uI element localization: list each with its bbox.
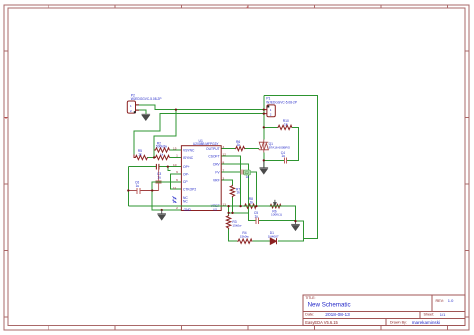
resistor R7: [230, 185, 234, 197]
svg-text:WJEDGGVC-5.08-2P: WJEDGGVC-5.08-2P: [266, 100, 297, 104]
svg-text:1N4007: 1N4007: [268, 234, 279, 238]
svg-text:1u: 1u: [157, 175, 161, 179]
svg-text:U2008B MFPG3Y: U2008B MFPG3Y: [193, 142, 219, 146]
resistor R1: [154, 155, 170, 159]
wire rail2: [229, 212, 249, 214]
wire OUTPUT to R6: [221, 148, 235, 150]
svg-text:NC: NC: [183, 199, 188, 203]
svg-text:VSYNC: VSYNC: [183, 148, 195, 152]
junction dots: [127, 108, 297, 222]
svg-text:15: 15: [173, 147, 177, 151]
svg-text:2: 2: [176, 206, 178, 210]
capacitor C1 (series in OP+ line): [156, 164, 159, 170]
wire C5 right to ground node: [259, 220, 296, 222]
wire R6 to triac gate: [245, 148, 259, 150]
wire R1 to ISYNC: [170, 157, 182, 159]
resistor R6: [235, 146, 245, 150]
svg-text:10: 10: [173, 163, 177, 167]
wire VRF to R7: [221, 180, 232, 185]
ground for P2: [142, 114, 151, 120]
svg-text:OUTPUT: OUTPUT: [206, 147, 220, 151]
capacitor C2 with selected label: [241, 170, 243, 175]
svg-text:OP+: OP+: [183, 165, 190, 169]
svg-text:OP-: OP-: [183, 172, 189, 176]
wire R10 right drop to C4: [287, 127, 299, 160]
wire R8 to Rb trimmer: [256, 205, 270, 207]
svg-text:ISYNC: ISYNC: [183, 156, 194, 160]
wire C2 right drop: [243, 172, 256, 206]
wire D1 to riser: [278, 221, 304, 241]
svg-text:1k: 1k: [236, 191, 240, 195]
svg-text:1k: 1k: [138, 153, 142, 157]
diode D1 1N4007: [270, 238, 276, 244]
connector P1: [264, 105, 275, 117]
wire FV to C2: [221, 171, 240, 173]
svg-text:7: 7: [223, 169, 225, 173]
wire OP+ to OP- loop stub: [168, 167, 171, 171]
svg-text:marekaminski: marekaminski: [412, 320, 440, 325]
wire P2 pin1 to P1 pin1 top feed: [136, 105, 264, 110]
svg-text:1u: 1u: [246, 175, 250, 179]
resistor R4: [237, 239, 252, 243]
title block text: [305, 296, 454, 325]
resistor R10: [277, 125, 292, 129]
svg-text:Drawn By:: Drawn By:: [390, 321, 407, 325]
svg-text:11: 11: [173, 186, 176, 190]
svg-text:1u: 1u: [281, 154, 285, 158]
svg-text:GND: GND: [184, 208, 192, 212]
svg-text:CSOFT: CSOFT: [208, 155, 219, 159]
svg-text:VRF: VRF: [213, 178, 220, 182]
svg-text:1k: 1k: [284, 122, 288, 126]
resistor R2: [154, 148, 170, 152]
wire Rb to ground node: [281, 205, 295, 207]
wire C4 left to triac node: [264, 159, 284, 161]
svg-text:1.0: 1.0: [448, 298, 454, 303]
IC U1 U2008B: [172, 139, 226, 212]
resistor R8: [244, 204, 256, 208]
svg-text:Date:: Date:: [305, 313, 314, 317]
svg-text:WJEDGGVC-5.08-2P: WJEDGGVC-5.08-2P: [131, 97, 162, 101]
ground at C5/rail node: [291, 221, 300, 230]
wire second feed P1 pin2 to R5: [134, 114, 264, 155]
wire OP- CTKOP2 loop: [171, 174, 182, 189]
connector P2: [127, 101, 139, 113]
capacitor C6 leads: [128, 190, 158, 192]
capacitor C5: [256, 218, 258, 224]
svg-text:U5: U5: [213, 208, 217, 212]
wire R2 left stub: [154, 149, 155, 151]
capacitor C4: [284, 157, 286, 163]
svg-text:4: 4: [223, 145, 225, 149]
ground below triac: [260, 160, 269, 173]
wire VREF rail horizontal: [128, 206, 295, 221]
svg-text:CP: CP: [183, 180, 188, 184]
svg-text:8: 8: [223, 161, 225, 165]
wire R2 to VSYNC: [170, 149, 182, 151]
svg-text:CRV: CRV: [213, 163, 221, 167]
svg-text:New Schematic: New Schematic: [308, 301, 351, 308]
svg-text:1u: 1u: [136, 184, 140, 188]
svg-text:1k: 1k: [237, 143, 241, 147]
wire P1 loop left vertical: [263, 96, 265, 140]
wire left vertical VREF rail: [127, 167, 129, 207]
svg-text:1: 1: [176, 154, 178, 158]
svg-text:1/1: 1/1: [440, 312, 446, 317]
svg-text:12: 12: [223, 153, 227, 157]
svg-text:REV:: REV:: [436, 299, 444, 303]
svg-text:500k2w: 500k2w: [156, 145, 168, 149]
svg-text:2018-08-13: 2018-08-13: [325, 312, 350, 318]
ground at U1 GND pin: [161, 209, 163, 211]
svg-text:1k: 1k: [250, 201, 254, 205]
sheet zone labels: [5, 5, 249, 120]
svg-text:BTA16-600BRG: BTA16-600BRG: [269, 146, 291, 150]
svg-text:EasyEDA V5.6.15: EasyEDA V5.6.15: [305, 320, 338, 325]
wire R7 bottom to rail2: [231, 197, 233, 213]
wire CP line: [152, 182, 181, 210]
svg-text:9: 9: [176, 170, 178, 174]
wire R5 to R1: [148, 157, 155, 159]
wire OP+ line left: [128, 166, 156, 168]
svg-text:1k: 1k: [160, 152, 164, 156]
title block: [303, 295, 465, 326]
svg-text:TITLE:: TITLE:: [305, 296, 315, 300]
wire CRV drop to C5: [221, 164, 256, 221]
svg-text:Sheet:: Sheet:: [424, 313, 435, 317]
wire R8 left stub: [241, 205, 244, 207]
wire rail1 to rail2 to R3: [228, 206, 230, 215]
capacitor C3: [158, 167, 160, 191]
triac Q1 BTA16-600BRG: [259, 140, 269, 153]
svg-text:CTKOP2: CTKOP2: [183, 188, 196, 192]
svg-text:15k0w: 15k0w: [232, 224, 242, 228]
svg-text:1u: 1u: [255, 214, 259, 218]
wire P2 pin2 to ground: [136, 110, 146, 114]
svg-text:3: 3: [223, 176, 225, 180]
resistor R3: [226, 215, 230, 229]
wire R3 bottom to R4: [229, 229, 238, 241]
wire junction drop to R2/R1 node: [154, 110, 176, 158]
trimmer Rb 100K: [270, 204, 282, 208]
svg-text:100K(1): 100K(1): [271, 213, 282, 217]
wire triac to R10: [264, 126, 278, 128]
wire riser elbow to tall loop: [264, 96, 318, 239]
resistor R5: [134, 155, 148, 160]
svg-text:6: 6: [176, 178, 178, 182]
wire OP+ line right: [159, 166, 182, 168]
wire triac bottom to ground: [263, 153, 265, 168]
svg-text:B: B: [5, 116, 7, 120]
capacitor C6: [137, 188, 140, 194]
svg-text:15k0w: 15k0w: [240, 234, 250, 238]
wire R4 to D1: [252, 240, 270, 242]
wire CSOFT drop: [221, 156, 240, 206]
